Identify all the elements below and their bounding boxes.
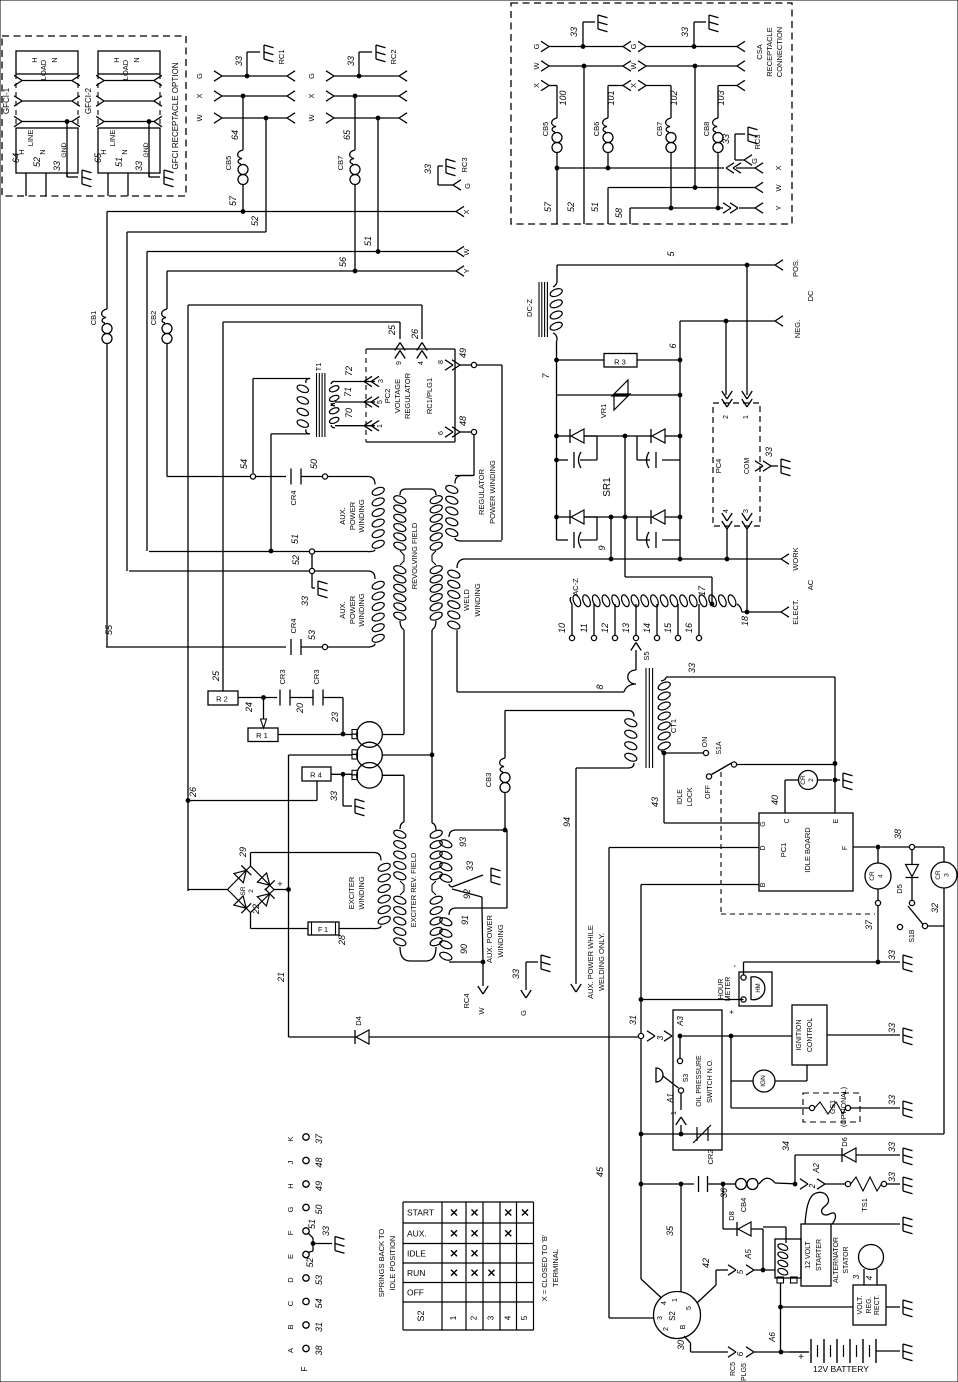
- svg-text:2: 2: [808, 1183, 817, 1189]
- svg-text:PC4: PC4: [714, 459, 723, 474]
- svg-text:B: B: [286, 1324, 295, 1329]
- svg-text:X: X: [307, 93, 316, 98]
- svg-text:TERMINAL: TERMINAL: [551, 1249, 560, 1287]
- svg-text:33: 33: [887, 1023, 897, 1033]
- svg-text:IGN: IGN: [760, 1075, 767, 1087]
- svg-text:43: 43: [650, 797, 660, 807]
- svg-text:54: 54: [314, 1298, 324, 1308]
- svg-text:50: 50: [309, 459, 319, 469]
- svg-text:49: 49: [314, 1181, 324, 1191]
- svg-text:E: E: [286, 1254, 295, 1259]
- svg-text:W: W: [477, 1007, 486, 1015]
- svg-text:NEG.: NEG.: [793, 320, 802, 338]
- PC4 pin 3: [742, 513, 747, 521]
- svg-text:AUX. POWER: AUX. POWER: [485, 914, 494, 963]
- bridge rectifier SR2: [228, 866, 251, 890]
- diode D4: [354, 1030, 356, 1044]
- wire 32 riser: [943, 926, 945, 1134]
- svg-text:31: 31: [628, 1015, 638, 1025]
- svg-text:W: W: [462, 248, 471, 256]
- svg-text:48: 48: [314, 1157, 324, 1167]
- svg-text:9: 9: [597, 545, 607, 550]
- wire 54 riser from T1: [252, 379, 254, 474]
- NEG arrow: [775, 316, 783, 321]
- wire 92-90-W common: [482, 908, 483, 962]
- wire 26 loop to pin 4: [188, 304, 422, 306]
- svg-text:WELD: WELD: [462, 589, 471, 611]
- wire ring1 to revolving field: [382, 734, 404, 736]
- svg-text:13: 13: [621, 623, 631, 633]
- svg-text:3: 3: [852, 1274, 861, 1279]
- svg-text:N: N: [38, 149, 47, 154]
- svg-text:22: 22: [251, 904, 261, 915]
- ignition control ground: [827, 1034, 900, 1036]
- svg-text:LOAD: LOAD: [121, 59, 130, 80]
- SR2 bottom to fuse F1: [250, 913, 252, 929]
- svg-text:RC2: RC2: [389, 49, 398, 64]
- CSA wire 51 drop: [607, 188, 609, 225]
- svg-text:IDLE: IDLE: [677, 789, 684, 805]
- svg-text:H: H: [286, 1183, 295, 1188]
- resistor GS1 (optional): [730, 1081, 732, 1108]
- ELECT arrow: [781, 607, 789, 612]
- svg-text:WINDING: WINDING: [496, 924, 505, 957]
- link 51-52: [311, 554, 313, 569]
- SR2 right to wire 21: [274, 889, 289, 891]
- svg-text:G: G: [629, 43, 638, 49]
- breaker CB8 (CSA): [713, 118, 718, 132]
- ground: [902, 1148, 904, 1162]
- fuse F1: [308, 922, 339, 935]
- ground: [902, 955, 904, 969]
- svg-text:12V BATTERY: 12V BATTERY: [813, 1364, 869, 1374]
- slip ring brushes: [352, 730, 358, 735]
- svg-text:R 1: R 1: [256, 731, 268, 740]
- svg-text:HM: HM: [756, 983, 762, 992]
- CSA Y bus: [630, 207, 723, 209]
- SR1 left rail: [556, 341, 558, 540]
- aux3 parallel link: [506, 830, 508, 908]
- svg-text:CR2: CR2: [706, 1149, 715, 1164]
- S1A-S1B mechanical dashed link: [720, 772, 722, 914]
- svg-text:WINDING: WINDING: [357, 499, 366, 532]
- module PC1 IDLE BOARD: [759, 813, 853, 891]
- svg-text:H: H: [30, 57, 39, 62]
- ground: [317, 581, 319, 595]
- SR1 cap row 1 right: [662, 459, 680, 461]
- svg-text:F: F: [300, 1366, 309, 1371]
- CSA RECEPTACLE CONNECTION dashed box: [511, 3, 792, 224]
- breaker CB7 (CSA): [666, 118, 671, 132]
- svg-text:ON: ON: [702, 737, 709, 748]
- PC1 pin F net / terminal 38: [853, 846, 875, 848]
- CSA W drop: [693, 64, 697, 68]
- svg-text:LINE: LINE: [108, 130, 117, 147]
- HOUR METER: [739, 972, 772, 1006]
- svg-text:GFCI-1: GFCI-1: [2, 87, 11, 114]
- wire 45 to S2 pin 3: [609, 1317, 653, 1319]
- connector A2: [800, 1179, 808, 1184]
- svg-text:CR: CR: [935, 870, 942, 880]
- svg-text:3: 3: [487, 1315, 496, 1320]
- CSA W bus: [608, 187, 755, 189]
- svg-text:4: 4: [878, 874, 885, 878]
- svg-text:REVOLVING FIELD: REVOLVING FIELD: [410, 522, 419, 589]
- svg-text:VOLTAGE: VOLTAGE: [393, 379, 402, 413]
- SR1 cap row 1: [555, 458, 559, 462]
- ground: [902, 1217, 904, 1231]
- svg-text:RECT.: RECT.: [874, 1295, 881, 1315]
- svg-text:SR1: SR1: [602, 477, 613, 497]
- svg-text:RC4: RC4: [462, 993, 471, 1008]
- svg-text:REGULATOR: REGULATOR: [403, 372, 412, 419]
- svg-text:32: 32: [930, 903, 940, 913]
- svg-text:EXCITER REV. FIELD: EXCITER REV. FIELD: [409, 852, 418, 927]
- wire 31 to ignition: [638, 1033, 643, 1038]
- table S2 positions: [402, 1202, 404, 1330]
- box IGNITION CONTROL: [792, 1005, 827, 1065]
- svg-text:D: D: [286, 1277, 295, 1283]
- CSA group2 W riser: [694, 66, 696, 188]
- svg-text:52: 52: [32, 157, 42, 167]
- svg-text:4: 4: [723, 509, 730, 513]
- ground: [163, 170, 165, 184]
- solenoid feed from A5/D8: [785, 1227, 787, 1239]
- wire 5 / POS: [556, 265, 558, 281]
- svg-text:2: 2: [470, 1315, 479, 1320]
- svg-text:VOLT.: VOLT.: [857, 1295, 864, 1314]
- wire 31/35 to S2: [640, 1134, 642, 1279]
- svg-text:3: 3: [944, 873, 951, 877]
- svg-text:CB5: CB5: [224, 156, 233, 171]
- svg-text:F: F: [842, 846, 849, 850]
- W arrow: [456, 246, 464, 251]
- Y arrow: [456, 266, 464, 271]
- svg-text:AUX.: AUX.: [338, 601, 347, 619]
- switch S2 ignition: [654, 1292, 701, 1339]
- svg-text:CR4: CR4: [289, 490, 298, 505]
- svg-text:C: C: [286, 1300, 295, 1306]
- PC2 connector chevrons: [364, 376, 372, 381]
- svg-text:71: 71: [343, 387, 353, 397]
- svg-text:AUX.: AUX.: [338, 507, 347, 525]
- breaker CB6 (CSA): [603, 118, 608, 132]
- ground: [780, 459, 782, 473]
- svg-text:65: 65: [342, 129, 352, 140]
- svg-text:X: X: [195, 93, 204, 98]
- aux3 coil section 91-90: [456, 907, 507, 909]
- svg-text:6: 6: [736, 1351, 745, 1356]
- svg-text:56: 56: [338, 257, 348, 267]
- svg-text:B: B: [760, 882, 767, 887]
- capacitor CR4 upper: [290, 469, 292, 485]
- breaker CB3: [504, 711, 506, 759]
- ground: [490, 868, 492, 882]
- svg-text:HOUR: HOUR: [718, 979, 725, 1000]
- switch S1A: [662, 751, 666, 755]
- svg-text:W: W: [195, 114, 204, 122]
- svg-text:A3: A3: [676, 1016, 685, 1027]
- svg-text:51: 51: [590, 202, 600, 212]
- svg-text:-: -: [730, 964, 739, 967]
- svg-text:33: 33: [300, 596, 310, 606]
- resistor R2: [208, 691, 238, 705]
- svg-text:LINE: LINE: [26, 130, 35, 147]
- svg-text:33: 33: [346, 56, 356, 66]
- relay CR4: [877, 847, 879, 863]
- svg-text:G: G: [195, 73, 204, 79]
- coil IGN: [730, 1036, 732, 1081]
- svg-text:33: 33: [134, 161, 144, 171]
- PC4 COM pin to ground: [755, 461, 763, 466]
- svg-text:90: 90: [459, 944, 469, 954]
- svg-text:21: 21: [276, 972, 286, 983]
- svg-text:1: 1: [449, 1315, 458, 1320]
- svg-text:33: 33: [423, 164, 433, 174]
- svg-text:103: 103: [716, 90, 726, 105]
- svg-text:4: 4: [865, 1275, 874, 1280]
- X arrow: [456, 206, 464, 211]
- CT1 primary loop from S5: [624, 670, 636, 692]
- svg-text:52: 52: [291, 555, 301, 565]
- hour meter plus wire / wire 31 junction: [641, 999, 744, 1001]
- terminal 50: [322, 474, 327, 479]
- CSA X bus: [556, 153, 558, 169]
- svg-text:REGULATOR: REGULATOR: [477, 468, 486, 515]
- svg-text:45: 45: [595, 1166, 605, 1177]
- ground: [445, 159, 447, 173]
- svg-text:X: X: [774, 165, 783, 170]
- SR1 right rail: [679, 321, 681, 559]
- svg-text:51: 51: [307, 1219, 317, 1229]
- wire 51 riser: [146, 252, 148, 552]
- svg-text:20: 20: [295, 703, 305, 714]
- svg-text:4: 4: [661, 1301, 668, 1305]
- svg-text:RC5: RC5: [730, 1362, 737, 1376]
- SR2 top to exciter winding: [250, 853, 252, 867]
- svg-text:CB1: CB1: [89, 311, 98, 326]
- svg-text:ALTERNATOR: ALTERNATOR: [833, 1237, 840, 1283]
- svg-text:X: X: [629, 83, 638, 88]
- svg-text:CR3: CR3: [278, 669, 287, 684]
- svg-text:D: D: [760, 845, 767, 850]
- wire 56 riser: [166, 271, 168, 309]
- svg-text:34: 34: [781, 1141, 791, 1151]
- X arrow: [755, 163, 763, 168]
- svg-text:GS1: GS1: [830, 1100, 837, 1114]
- wire 37 from CR4 contact: [877, 906, 879, 962]
- svg-text:24: 24: [244, 702, 254, 713]
- AC-Z taps: [571, 604, 573, 635]
- RC2 ground wire 33: [357, 74, 361, 78]
- svg-text:29: 29: [238, 847, 248, 858]
- svg-text:53: 53: [307, 630, 317, 640]
- svg-text:26: 26: [188, 787, 198, 798]
- PC2 pin 9: [395, 343, 400, 351]
- svg-text:H: H: [112, 57, 121, 62]
- SR1 center wire to tap 17: [624, 436, 626, 577]
- svg-text:64: 64: [11, 153, 21, 163]
- svg-text:26: 26: [410, 329, 420, 340]
- box 12 VOLT STARTER: [801, 1224, 831, 1286]
- svg-text:CB2: CB2: [149, 311, 158, 326]
- svg-text:POWER: POWER: [348, 501, 357, 530]
- wire 31 from pin B: [641, 884, 759, 886]
- box VOLT REG RECT: [853, 1285, 886, 1325]
- svg-text:CR: CR: [869, 871, 876, 881]
- wire 45 from pin D: [609, 847, 759, 849]
- svg-text:D6: D6: [840, 1137, 849, 1147]
- CSA ground 33: [581, 45, 585, 49]
- svg-text:64: 64: [230, 130, 240, 140]
- ground: [835, 779, 840, 781]
- wire 51 / W bus: [147, 251, 456, 253]
- svg-text:LOCK: LOCK: [687, 787, 694, 806]
- ground: [81, 170, 83, 184]
- svg-text:102: 102: [669, 90, 679, 105]
- oil pressure switch S3: [679, 1036, 681, 1058]
- switch S1B: [928, 925, 944, 927]
- svg-text:37: 37: [314, 1133, 324, 1144]
- svg-text:RC1/PLG1: RC1/PLG1: [425, 378, 434, 414]
- svg-text:AC-Z: AC-Z: [571, 578, 580, 596]
- svg-text:38: 38: [893, 829, 903, 839]
- svg-text:IGNITION: IGNITION: [796, 1019, 803, 1050]
- svg-text:CONTROL: CONTROL: [807, 1018, 814, 1052]
- svg-text:8: 8: [595, 684, 605, 689]
- svg-text:33: 33: [887, 1095, 897, 1105]
- svg-text:65: 65: [93, 152, 103, 163]
- ground: [747, 127, 749, 141]
- svg-text:49: 49: [458, 348, 468, 358]
- svg-text:33: 33: [465, 861, 475, 871]
- RC4 W arrow: [482, 962, 484, 986]
- svg-text:OFF: OFF: [407, 1287, 424, 1297]
- CT1 aux winding: [505, 710, 628, 712]
- SR1 diode row 1 right: [650, 429, 652, 443]
- wire 36 row: [639, 1182, 643, 1186]
- ground: [334, 1237, 336, 1251]
- svg-text:33: 33: [321, 1226, 331, 1236]
- svg-text:51: 51: [363, 236, 373, 246]
- svg-text:+: +: [727, 1009, 736, 1014]
- svg-text:C: C: [784, 818, 791, 823]
- capacitor CR3 a: [279, 690, 281, 706]
- svg-text:8: 8: [438, 360, 445, 364]
- wire 53/55 row: [106, 646, 286, 648]
- svg-text:2: 2: [723, 415, 730, 419]
- svg-text:N: N: [120, 149, 129, 154]
- SR1 diode row 2 right: [650, 510, 652, 524]
- svg-text:POS.: POS.: [791, 259, 800, 277]
- svg-text:72: 72: [344, 366, 354, 376]
- wire 56 / Y bus: [167, 270, 456, 272]
- svg-text:Y: Y: [774, 205, 783, 210]
- svg-text:18: 18: [740, 616, 750, 626]
- RC1 ground wire 33: [245, 74, 249, 78]
- 52 ground stub: [311, 574, 313, 588]
- svg-text:G: G: [286, 1206, 295, 1212]
- breaker CB5 (CSA): [552, 118, 557, 132]
- wire 21 from ring2: [289, 754, 353, 756]
- svg-text:R 4: R 4: [310, 771, 322, 780]
- svg-text:101: 101: [606, 90, 616, 105]
- svg-text:S1A: S1A: [716, 741, 723, 755]
- GFCI wires: [107, 173, 109, 196]
- svg-text:35: 35: [665, 1225, 675, 1236]
- starter solenoid: [775, 1239, 801, 1278]
- svg-text:G: G: [750, 158, 759, 164]
- SR1 diode row 2: [555, 515, 559, 519]
- svg-text:N: N: [50, 57, 59, 62]
- GFCI LOAD box: [16, 51, 78, 74]
- ground: [902, 1344, 904, 1358]
- svg-text:AC: AC: [806, 579, 815, 590]
- svg-text:12: 12: [600, 623, 610, 633]
- svg-text:11: 11: [579, 623, 589, 632]
- svg-text:OFF: OFF: [705, 785, 712, 799]
- starter bendix: [805, 1192, 835, 1224]
- svg-text:92: 92: [462, 889, 472, 899]
- svg-text:G: G: [307, 73, 316, 79]
- WORK bus: [464, 558, 781, 560]
- svg-text:51: 51: [290, 534, 300, 544]
- ELECT line: [742, 611, 781, 613]
- svg-text:33: 33: [687, 663, 697, 673]
- svg-text:36: 36: [719, 1188, 729, 1198]
- ground: [354, 799, 356, 813]
- svg-text:D8: D8: [727, 1211, 736, 1221]
- svg-text:30: 30: [676, 1340, 686, 1350]
- W arrow: [755, 182, 763, 187]
- capacitor CR3 b: [312, 690, 314, 706]
- svg-text:12 VOLT: 12 VOLT: [805, 1241, 812, 1269]
- svg-text:33: 33: [887, 1142, 897, 1152]
- svg-text:+: +: [277, 879, 282, 889]
- svg-text:A5: A5: [744, 1249, 753, 1260]
- module PC4 dashed box: [713, 403, 760, 526]
- aux3 coil section 93-92: [456, 829, 505, 831]
- GFCI wires: [25, 173, 27, 196]
- RC4 G arrow and ground: [521, 990, 526, 998]
- svg-text:37: 37: [864, 919, 874, 930]
- resistor R3: [557, 359, 605, 361]
- ground: [540, 955, 542, 969]
- svg-text:G: G: [760, 821, 767, 826]
- svg-text:25: 25: [211, 670, 221, 682]
- svg-text:6: 6: [668, 343, 678, 348]
- SR2 left to wire 26: [188, 889, 228, 891]
- CSA wire 52 drop: [583, 66, 585, 224]
- svg-text:3: 3: [378, 379, 385, 383]
- RC3 G arrow: [453, 180, 461, 185]
- svg-text:S2: S2: [416, 1310, 426, 1321]
- svg-text:A2: A2: [812, 1163, 821, 1174]
- svg-text:1: 1: [743, 415, 750, 419]
- svg-text:42: 42: [701, 1258, 711, 1268]
- svg-text:25: 25: [387, 324, 397, 336]
- svg-text:CONNECTION: CONNECTION: [775, 27, 784, 77]
- slip ring 3: [357, 763, 383, 789]
- terminal 52: [309, 568, 314, 573]
- T1 primary winding: [296, 384, 310, 394]
- Y arrow: [755, 203, 763, 208]
- svg-text:54: 54: [239, 459, 249, 469]
- solenoid contacts: [777, 1277, 784, 1283]
- volt reg wires: [780, 1283, 782, 1352]
- connector A3 box: [673, 1010, 722, 1150]
- PC2 pin 4: [417, 343, 422, 351]
